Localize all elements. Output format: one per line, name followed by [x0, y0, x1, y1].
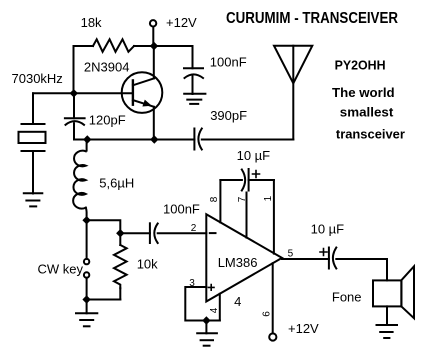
wire pin1 vertical	[273, 180, 275, 254]
inductor bottom lead	[85, 208, 88, 220]
ground under key	[76, 313, 97, 326]
node at 10k top	[116, 229, 124, 237]
inductor L1 5,6uH	[73, 151, 86, 209]
svg-text:CURUMIM - TRANSCEIVER: CURUMIM - TRANSCEIVER	[226, 10, 398, 27]
wire emitter rail bottom left	[74, 139, 194, 141]
minus sign pin2	[210, 232, 216, 234]
wire bypass cap top lead	[192, 46, 194, 68]
ground under crystal	[24, 193, 43, 206]
svg-text:5,6µH: 5,6µH	[99, 176, 134, 191]
svg-text:18k: 18k	[81, 15, 102, 30]
node emitter junction bottom	[150, 135, 158, 143]
transistor Q1 2N3904	[122, 72, 163, 113]
svg-text:100nF: 100nF	[163, 202, 200, 217]
svg-text:10k: 10k	[137, 256, 158, 271]
wire key to resistor bottom	[87, 299, 121, 301]
wire crystal top lead	[32, 93, 34, 124]
plus sign C6	[320, 249, 327, 256]
wire pin6 vertical	[272, 263, 274, 333]
op-amp U1 LM386	[206, 214, 282, 301]
svg-text:120pF: 120pF	[89, 112, 126, 127]
wire collector vertical	[153, 46, 155, 78]
resistor R1 18k	[93, 39, 134, 52]
svg-text:+12V: +12V	[288, 321, 319, 336]
wire from +12V terminal down	[152, 27, 154, 46]
node inductor junction	[83, 135, 91, 143]
wire inductor node to cap node	[87, 220, 121, 233]
capacitor 120pF top lead	[73, 93, 75, 118]
svg-text:transceiver: transceiver	[336, 127, 405, 142]
svg-text:5: 5	[288, 249, 294, 260]
wire crystal bottom lead	[32, 151, 34, 194]
wire top gain left	[220, 179, 242, 181]
svg-text:LM386: LM386	[218, 255, 258, 270]
svg-text:1: 1	[263, 195, 274, 201]
svg-text:10 µF: 10 µF	[311, 221, 345, 236]
svg-text:4: 4	[234, 294, 241, 309]
CW key top lead	[86, 220, 88, 259]
svg-text:8: 8	[209, 196, 220, 202]
speaker LS1 Fone	[373, 266, 414, 318]
wire top gain right	[249, 179, 274, 181]
svg-text:7: 7	[237, 196, 248, 202]
ground under bypass cap	[184, 94, 205, 104]
svg-text:2N3904: 2N3904	[84, 60, 130, 75]
CW key bottom lead	[86, 278, 88, 300]
antenna ANT	[274, 46, 312, 140]
wire pin7 vertical	[246, 193, 248, 238]
wire emitter vertical	[153, 107, 155, 140]
wire left vertical to base node	[73, 46, 75, 93]
svg-text:+12V: +12V	[166, 15, 197, 30]
wire pin4 stub	[219, 294, 221, 321]
wire pin5 output	[282, 258, 329, 260]
wire output to speaker	[336, 259, 387, 280]
node junction top rail	[150, 42, 158, 50]
ground under speaker	[377, 325, 398, 338]
terminal +12V bottom	[269, 333, 276, 340]
svg-text:smallest: smallest	[340, 104, 394, 119]
ground under pin4	[197, 333, 217, 345]
capacitor C2 100nF bypass	[184, 68, 203, 78]
svg-text:2: 2	[191, 223, 197, 234]
svg-text:10 µF: 10 µF	[237, 148, 271, 163]
svg-text:390pF: 390pF	[210, 108, 247, 123]
svg-text:Fone: Fone	[332, 290, 362, 305]
capacitor C5 10uF gain	[242, 169, 249, 191]
resistor R2 10k top lead	[119, 233, 121, 245]
wire ground lead pin4	[205, 321, 207, 334]
node base junction	[70, 89, 78, 97]
wire top rail right of resistor	[134, 45, 193, 47]
wire bypass cap bottom lead	[192, 76, 194, 94]
plus sign pin3	[209, 285, 215, 291]
node below inductor	[82, 216, 90, 224]
wire node to coupling cap	[120, 232, 150, 234]
wire cap to pin2	[158, 232, 207, 234]
svg-text:6: 6	[262, 311, 273, 317]
wire top rail left of resistor	[74, 45, 94, 47]
CW key contacts	[84, 259, 89, 278]
capacitor C1 120pF	[65, 118, 85, 125]
resistor R2 bottom lead	[119, 288, 121, 299]
capacitor 120pF bottom lead	[73, 123, 75, 139]
svg-text:The world: The world	[332, 85, 395, 100]
capacitor C4 100nF coupling	[150, 223, 158, 243]
wire pin3 loop	[185, 287, 220, 321]
svg-text:CW key: CW key	[38, 261, 84, 276]
crystal X1 7030kHz	[19, 124, 46, 151]
resistor R2 10k	[114, 245, 127, 288]
node ground pin4	[202, 316, 210, 324]
inductor L1 5,6uH top lead	[86, 140, 88, 151]
plus sign C5	[253, 171, 260, 178]
wire speaker ground lead	[386, 306, 388, 325]
node bottom of key	[82, 295, 90, 303]
capacitor C3 390pF	[194, 129, 201, 150]
svg-text:7030kHz: 7030kHz	[12, 71, 63, 86]
wire bottom rail to antenna	[202, 139, 293, 141]
svg-text:PY2OHH: PY2OHH	[335, 57, 386, 72]
terminal +12V top	[150, 20, 156, 26]
wire ground lead below key	[86, 300, 88, 314]
svg-text:4: 4	[209, 307, 220, 313]
svg-text:100nF: 100nF	[210, 54, 247, 69]
wire base node horizontal	[33, 92, 132, 94]
capacitor C6 10uF output	[329, 248, 336, 269]
wire pin8 vertical	[219, 180, 221, 222]
